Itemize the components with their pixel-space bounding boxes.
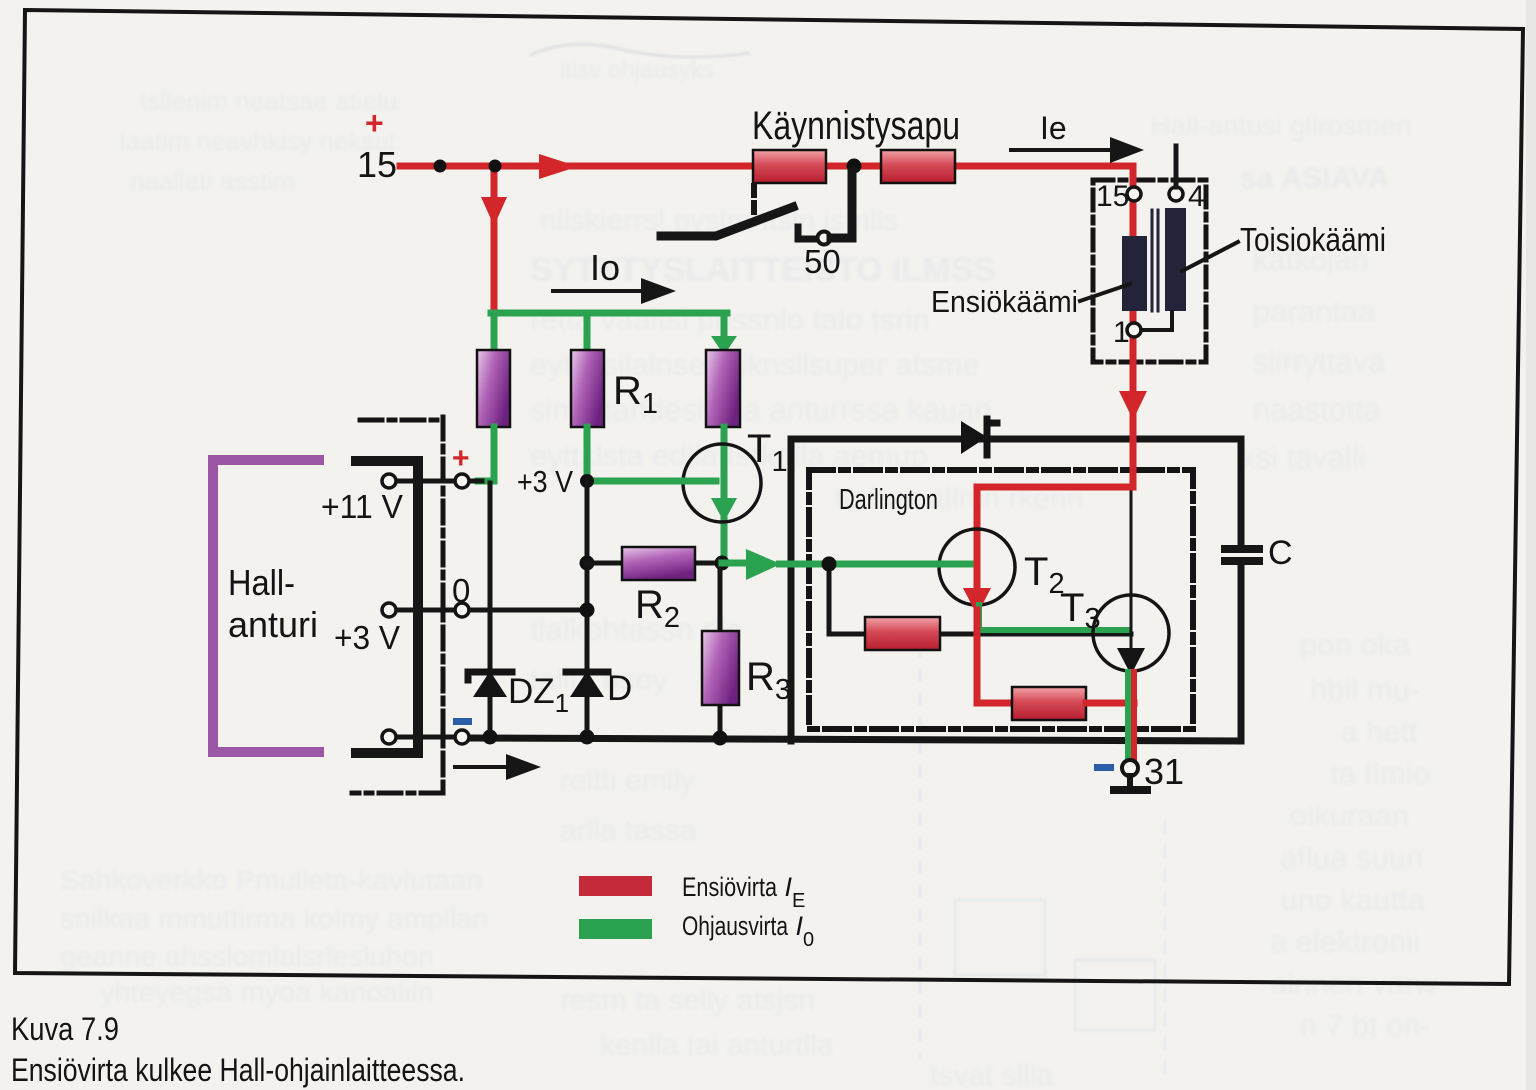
wire: red primary into module <box>977 487 1133 588</box>
wire: T3 base rail (black under green) <box>977 632 1131 637</box>
svg-text:Ie: Ie <box>1040 110 1067 146</box>
node: T2 base junction <box>822 557 837 572</box>
wire: green emitter down to terminal 31 <box>1125 672 1131 764</box>
ground symbol <box>1110 776 1151 794</box>
svg-text:1: 1 <box>1113 316 1130 349</box>
wire: green drop to R bank left <box>491 313 498 350</box>
capacitor C <box>1221 545 1263 565</box>
svg-text:Käynnistysapu: Käynnistysapu <box>752 104 960 148</box>
svg-text:Darlington: Darlington <box>839 484 938 516</box>
svg-text:31: 31 <box>1144 751 1184 792</box>
wire: red T2 emitter down to shunt <box>977 610 1012 703</box>
svg-text:hbil mu-: hbil mu- <box>1310 672 1420 707</box>
svg-text:reltti emlly: reltti emlly <box>560 764 695 797</box>
switch: starter bypass switch with terminal 50 <box>661 172 852 245</box>
terminal 15 of coil <box>1127 187 1141 201</box>
current arrow on +15 rail (red) <box>539 154 578 179</box>
transistor T3 <box>1093 595 1169 671</box>
wire: green below R1 to +3V node <box>584 427 591 481</box>
wire: green +3V rail to T1 base <box>587 478 716 485</box>
svg-text:laatim neavhkisy neksut: laatim neavhkisy neksut <box>120 126 397 156</box>
terminal 4 of coil <box>1169 187 1183 201</box>
label: - polarity (blue) <box>1094 764 1114 771</box>
svg-text:a elektronii: a elektronii <box>1270 924 1420 959</box>
ignition coil outline (dash-dot box) <box>1093 180 1206 362</box>
wire: case right edge lower <box>1238 565 1245 741</box>
wire: R3 branch <box>718 563 723 631</box>
svg-text:C: C <box>1268 534 1293 572</box>
svg-text:ksi tavalli: ksi tavalli <box>1240 440 1366 475</box>
wire: green drop to R bank right with arrow <box>711 313 737 355</box>
arrow: Ie direction <box>1011 137 1144 163</box>
wire: secondary return to terminal 1 <box>1141 312 1172 330</box>
svg-text:+3 V: +3 V <box>334 619 400 656</box>
wire: 0 row <box>396 608 455 613</box>
node: DZ1 ground junction <box>483 730 498 745</box>
node: R2 left junction <box>580 556 595 571</box>
wire: case right edge upper (to capacitor) <box>1238 439 1245 547</box>
legend: green swatch <box>579 919 652 939</box>
wire: D branch <box>585 481 590 737</box>
wire: red emitter down to terminal 31 <box>1131 672 1137 764</box>
coil primary winding (Ensiokaami) <box>1122 236 1147 311</box>
svg-text:+: + <box>365 105 384 141</box>
svg-text:siirryttava: siirryttava <box>1253 344 1386 379</box>
node: junction dot at starter-switch tap <box>847 159 862 174</box>
resistor: Kaynnistysapu ballast resistor 2 <box>881 150 955 183</box>
terminal 1 of coil <box>1127 323 1141 337</box>
wire: green drop to R1 <box>584 313 591 350</box>
svg-text:aflua suun: aflua suun <box>1280 840 1423 875</box>
black arrow inside T3 <box>1117 648 1145 675</box>
terminal circles hall side <box>382 474 396 488</box>
freewheel diode on case top <box>961 419 997 455</box>
terminal circles connector side <box>455 474 469 488</box>
wire: battery +15 feed rail (red) <box>400 163 1133 170</box>
svg-text:naalleti asstim: naalleti asstim <box>130 166 295 196</box>
label: - plug polarity (blue) <box>453 718 472 725</box>
svg-text:tsvat sllla: tsvat sllla <box>930 1059 1054 1090</box>
node: R2 right junction <box>715 556 730 571</box>
wire: red drop to control-current node <box>481 166 507 313</box>
coil core <box>1152 210 1158 311</box>
wire: T2 base-emitter resistor leads <box>829 564 865 634</box>
wire: green below left resistor to +terminal <box>478 427 494 481</box>
svg-text:anturi: anturi <box>228 604 318 645</box>
hall unit boundary (dash-dot) <box>441 417 446 791</box>
wire: DZ1 branch <box>488 483 493 737</box>
svg-text:4: 4 <box>1188 180 1205 213</box>
node: R3 ground junction <box>713 731 728 746</box>
hall sensor purple bracket <box>213 460 319 752</box>
resistor: Kaynnistysapu ballast resistor 1 <box>753 150 826 183</box>
svg-text:itlsv ohjausyks: itlsv ohjausyks <box>560 57 715 84</box>
svg-text:yhteyegsa myoa kanoaliln: yhteyegsa myoa kanoaliln <box>100 977 434 1009</box>
svg-text:a hett: a hett <box>1340 714 1418 749</box>
svg-text:resm ta selly atsjsn: resm ta selly atsjsn <box>560 984 815 1017</box>
wire: R2 leads <box>587 561 622 566</box>
resistor R1 <box>571 350 604 427</box>
svg-text:snilkaa mmuttirma kolmy am: snilkaa mmuttirma kolmy ampllan <box>60 903 489 935</box>
svg-text:Hall-: Hall- <box>228 562 295 603</box>
wire: red from shunt to emitter node <box>1086 700 1134 707</box>
svg-text:+3 V: +3 V <box>517 464 573 499</box>
svg-text:15: 15 <box>1096 180 1129 213</box>
svg-text:Io: Io <box>590 247 620 288</box>
darlington inner boundary (dash-dot) <box>809 470 1193 729</box>
svg-text:kenlla tai anturtlla: kenlla tai anturtlla <box>600 1029 834 1062</box>
transistor T1 <box>683 444 761 522</box>
svg-text:Ensiövirta kulkee Hall-ohjainl: Ensiövirta kulkee Hall-ohjainlaitteessa. <box>11 1052 465 1088</box>
darlington module outer case <box>791 439 1241 741</box>
svg-text:parantaa: parantaa <box>1253 294 1376 329</box>
node: +3V junction <box>580 474 594 488</box>
svg-text:+11 V: +11 V <box>321 488 403 525</box>
wire: green drive overlay across module edge <box>776 561 973 568</box>
svg-text:geanne ahsslomlalsrlesluhon: geanne ahsslomlalsrlesluhon <box>60 941 434 973</box>
svg-text:Hall-antusi glirosmen: Hall-antusi glirosmen <box>1150 110 1411 141</box>
zener diode DZ1 <box>468 671 512 697</box>
resistor: right bias resistor <box>706 350 740 427</box>
transistor T2 <box>939 529 1015 605</box>
resistor R3 <box>702 631 739 705</box>
wire: green control bus (top) <box>491 310 727 317</box>
resistor: left bias resistor <box>477 350 510 427</box>
wire: +11V row <box>396 479 455 484</box>
svg-text:D: D <box>607 669 632 708</box>
svg-text:15: 15 <box>357 144 397 185</box>
page edge shading right <box>1526 0 1536 1090</box>
wire: circuit ground bus (bottom) <box>469 738 1241 741</box>
legend: red swatch <box>579 876 652 896</box>
wire: terminal 4 stub to distributor <box>1174 146 1179 187</box>
hall unit black bracket <box>356 461 418 753</box>
arrow: return current under ground bus <box>455 754 541 780</box>
svg-text:ta Ilmio: ta Ilmio <box>1330 756 1430 791</box>
terminal 31 <box>1122 760 1138 776</box>
diode D <box>566 671 608 697</box>
svg-text:Sahkoverkko Pmulleta-kavlutaa: Sahkoverkko Pmulleta-kavlutaan <box>60 865 482 897</box>
faint reverse-side diagram marks <box>530 44 1165 1080</box>
arrow: Io direction <box>553 278 676 304</box>
wire: red primary current through coil <box>1119 166 1147 487</box>
svg-text:naastotta: naastotta <box>1253 392 1381 427</box>
wire: T3 collector (thin) <box>1130 492 1133 650</box>
resistor R2 <box>622 547 695 580</box>
wire: minus row <box>396 735 455 740</box>
svg-text:Ensiökäämi: Ensiökäämi <box>931 284 1078 319</box>
node: junction dot on rail <box>434 160 447 173</box>
svg-text:50: 50 <box>804 243 841 280</box>
svg-text:oikuraan: oikuraan <box>1290 798 1409 833</box>
wire: green through T1 <box>711 427 737 562</box>
resistor: T3 emitter shunt resistor <box>1012 687 1086 720</box>
wire: red primary overlay across module edge <box>1130 424 1137 487</box>
node: T2 base junction (overlay) <box>822 557 837 572</box>
svg-text:uno kautta: uno kautta <box>1280 882 1426 917</box>
svg-text:tsllenim neatsae atielu: tsllenim neatsae atielu <box>140 86 397 116</box>
node: D junctions <box>580 603 595 618</box>
svg-text:sa ASIAVA: sa ASIAVA <box>1240 162 1390 195</box>
node: junction dot on rail at red drop <box>489 160 502 173</box>
svg-text:Kuva 7.9: Kuva 7.9 <box>11 1011 119 1047</box>
red arrow inside T2 <box>963 588 991 615</box>
wire: green T2 emitter to T3 base <box>979 605 1128 630</box>
svg-text:arlla tassa: arlla tassa <box>560 814 697 847</box>
svg-text:n 7 bt on-: n 7 bt on- <box>1300 1008 1431 1043</box>
svg-text:pon oka: pon oka <box>1300 627 1411 662</box>
svg-text:+: + <box>452 442 470 475</box>
resistor: T2 shunt resistor <box>865 617 940 650</box>
coil secondary winding (Toisiokaami) <box>1165 208 1186 311</box>
svg-text:Toisiokäämi: Toisiokäämi <box>1240 221 1386 258</box>
wire: green drive to darlington with arrow <box>722 549 973 580</box>
